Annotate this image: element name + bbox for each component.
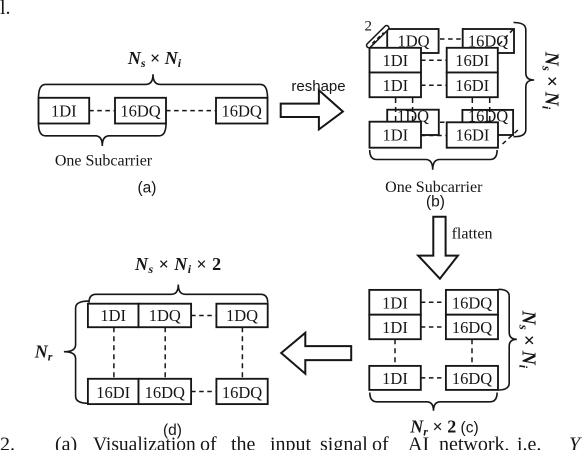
- box 16DQ (b) back bottom: [462, 110, 513, 135]
- arrow reshape: [281, 90, 343, 129]
- svg-text:1DQ: 1DQ: [149, 306, 181, 325]
- svg-text:reshape: reshape: [291, 78, 345, 95]
- svg-text:1DI: 1DI: [51, 102, 77, 121]
- wire dashed verticals gap left (b): [395, 98, 397, 130]
- svg-text:signal: signal: [320, 434, 368, 450]
- box 1DQ (b) back bottom: [387, 110, 439, 135]
- svg-text:1DI: 1DI: [382, 51, 408, 70]
- wire dashed vertical 2 (d): [164, 327, 166, 379]
- box 16DI (d) bottom: [88, 379, 139, 404]
- wire dashed vertical left (c): [394, 339, 396, 366]
- svg-text:16DQ: 16DQ: [120, 102, 160, 121]
- box 1DI (d) top: [88, 304, 139, 328]
- wire dashed diagonal in strip (b): [372, 33, 383, 44]
- svg-text:Ns × Ni: Ns × Ni: [127, 48, 182, 70]
- svg-text:input: input: [270, 434, 312, 450]
- box 16DQ (b) back top: [463, 29, 514, 53]
- brace right (c): [499, 289, 517, 390]
- box 1DI (c) row2: [369, 315, 421, 340]
- svg-text:network,: network,: [439, 434, 510, 450]
- wire dashed top row (d): [191, 315, 216, 317]
- wire dashed row2 (b): [421, 84, 447, 86]
- box 1DQ (b) back top: [387, 29, 438, 53]
- wire dashed back bottom (b): [440, 121, 462, 123]
- box 16DI (b) row2: [447, 73, 498, 98]
- underbrace (c): [370, 393, 497, 411]
- box 1DQ (d) top middle: [139, 304, 192, 328]
- wire dashed (a) 2: [166, 110, 216, 112]
- svg-text:16DQ: 16DQ: [452, 318, 492, 337]
- svg-text:1DI: 1DI: [382, 318, 408, 337]
- box 16DQ (a) right: [216, 98, 268, 124]
- svg-text:Y: Y: [569, 434, 582, 450]
- svg-text:One Subcarrier: One Subcarrier: [55, 153, 153, 170]
- wire dashed bottom row (d): [191, 391, 216, 393]
- svg-text:16DI: 16DI: [96, 383, 130, 402]
- brace left Nr (d): [64, 301, 89, 403]
- svg-text:16DQ: 16DQ: [452, 369, 492, 388]
- svg-text:1DI: 1DI: [382, 76, 408, 95]
- box 1DI (b) front bottom: [370, 122, 422, 148]
- svg-text:Nr: Nr: [34, 342, 53, 364]
- overbrace Ns x Ni (a): [39, 74, 268, 98]
- wire dashed (a) 1: [89, 110, 115, 112]
- svg-text:of: of: [372, 434, 389, 450]
- svg-text:16DQ: 16DQ: [222, 102, 262, 121]
- svg-text:i.e.: i.e.: [517, 434, 541, 450]
- box 16DQ (d) bottom right: [216, 379, 267, 404]
- wire dashed row3 (c): [421, 377, 446, 379]
- svg-text:l.: l.: [0, 0, 11, 19]
- svg-text:16DI: 16DI: [455, 76, 489, 95]
- box 1DI (b) row2: [370, 73, 422, 98]
- box 16DI (b) row1: [447, 48, 498, 73]
- wire dashed vertical 3 (d): [241, 327, 243, 379]
- box 1DI (c) row3: [369, 366, 421, 390]
- svg-text:Ns × Ni: Ns × Ni: [516, 310, 538, 369]
- svg-text:(a): (a): [138, 179, 157, 196]
- box 16DQ (d) bottom middle: [139, 379, 192, 404]
- svg-text:Visualization: Visualization: [93, 435, 196, 450]
- wire dashed diagonal bottom right (b): [503, 130, 519, 145]
- wire dashed verticals gap right (b): [471, 98, 473, 130]
- arrow left (c to d): [281, 333, 351, 374]
- svg-text:16DQ: 16DQ: [145, 383, 185, 402]
- svg-text:16DI: 16DI: [455, 126, 489, 145]
- svg-text:2: 2: [365, 19, 373, 35]
- wire dashed back top (b): [440, 38, 463, 40]
- depth strip top-left (b): [369, 28, 387, 46]
- box 1DQ (d) top right: [216, 304, 267, 328]
- svg-text:1DI: 1DI: [382, 369, 408, 388]
- arrow flatten: [418, 217, 458, 279]
- brace right (b): [514, 23, 535, 137]
- wire dashed row1 (c): [421, 301, 446, 303]
- box 1DI (a): [39, 98, 90, 124]
- wire dashed row2 (c): [421, 326, 446, 328]
- svg-text:1DI: 1DI: [382, 126, 408, 145]
- svg-text:1DQ: 1DQ: [226, 306, 258, 325]
- box 1DI (c) row1: [369, 290, 421, 315]
- svg-text:of: of: [200, 434, 217, 450]
- wire dashed diagonal top right (b): [499, 29, 514, 45]
- svg-text:Ns × Ni × 2: Ns × Ni × 2: [134, 254, 222, 276]
- underbrace One Subcarrier (a): [39, 124, 167, 147]
- svg-text:16DQ: 16DQ: [222, 383, 262, 402]
- box 16DI (b) front bottom: [447, 122, 498, 147]
- box 16DQ (c) row2: [446, 315, 498, 340]
- wire dashed vertical 1 (d): [113, 327, 115, 379]
- svg-text:1DI: 1DI: [382, 293, 408, 312]
- svg-text:16DQ: 16DQ: [452, 293, 492, 312]
- wire dashed vertical right (c): [471, 339, 473, 366]
- svg-text:the: the: [231, 434, 256, 450]
- svg-text:2.: 2.: [0, 434, 15, 450]
- wire dashed front bottom (b): [421, 135, 447, 137]
- box 16DQ (c) row3: [446, 366, 498, 390]
- svg-text:16DI: 16DI: [455, 51, 489, 70]
- svg-text:1DI: 1DI: [100, 306, 126, 325]
- wire dashed row1 (b): [421, 59, 447, 61]
- box 16DQ (c) row1: [446, 290, 498, 315]
- svg-text:Ns × Ni: Ns × Ni: [540, 51, 562, 110]
- svg-text:AI: AI: [408, 434, 429, 450]
- box 1DI (b) row1: [370, 48, 422, 73]
- overbrace Ns x Ni x 2 (d): [89, 285, 268, 303]
- svg-text:flatten: flatten: [452, 226, 493, 243]
- svg-text:(b): (b): [426, 194, 445, 211]
- box 16DQ (a) middle: [115, 98, 166, 124]
- svg-text:(a): (a): [55, 434, 77, 450]
- underbrace One Subcarrier (b): [370, 150, 497, 170]
